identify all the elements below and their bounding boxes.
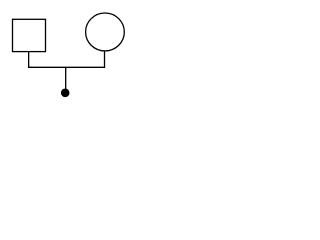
child dot (filled) [61,89,70,98]
wire: partnership line [28,66,105,68]
wire: circle descender [104,51,106,67]
wire: square descender [28,52,30,68]
male square (father) [13,19,46,51]
female circle (mother) [86,13,125,51]
wire: child descender [65,67,67,89]
